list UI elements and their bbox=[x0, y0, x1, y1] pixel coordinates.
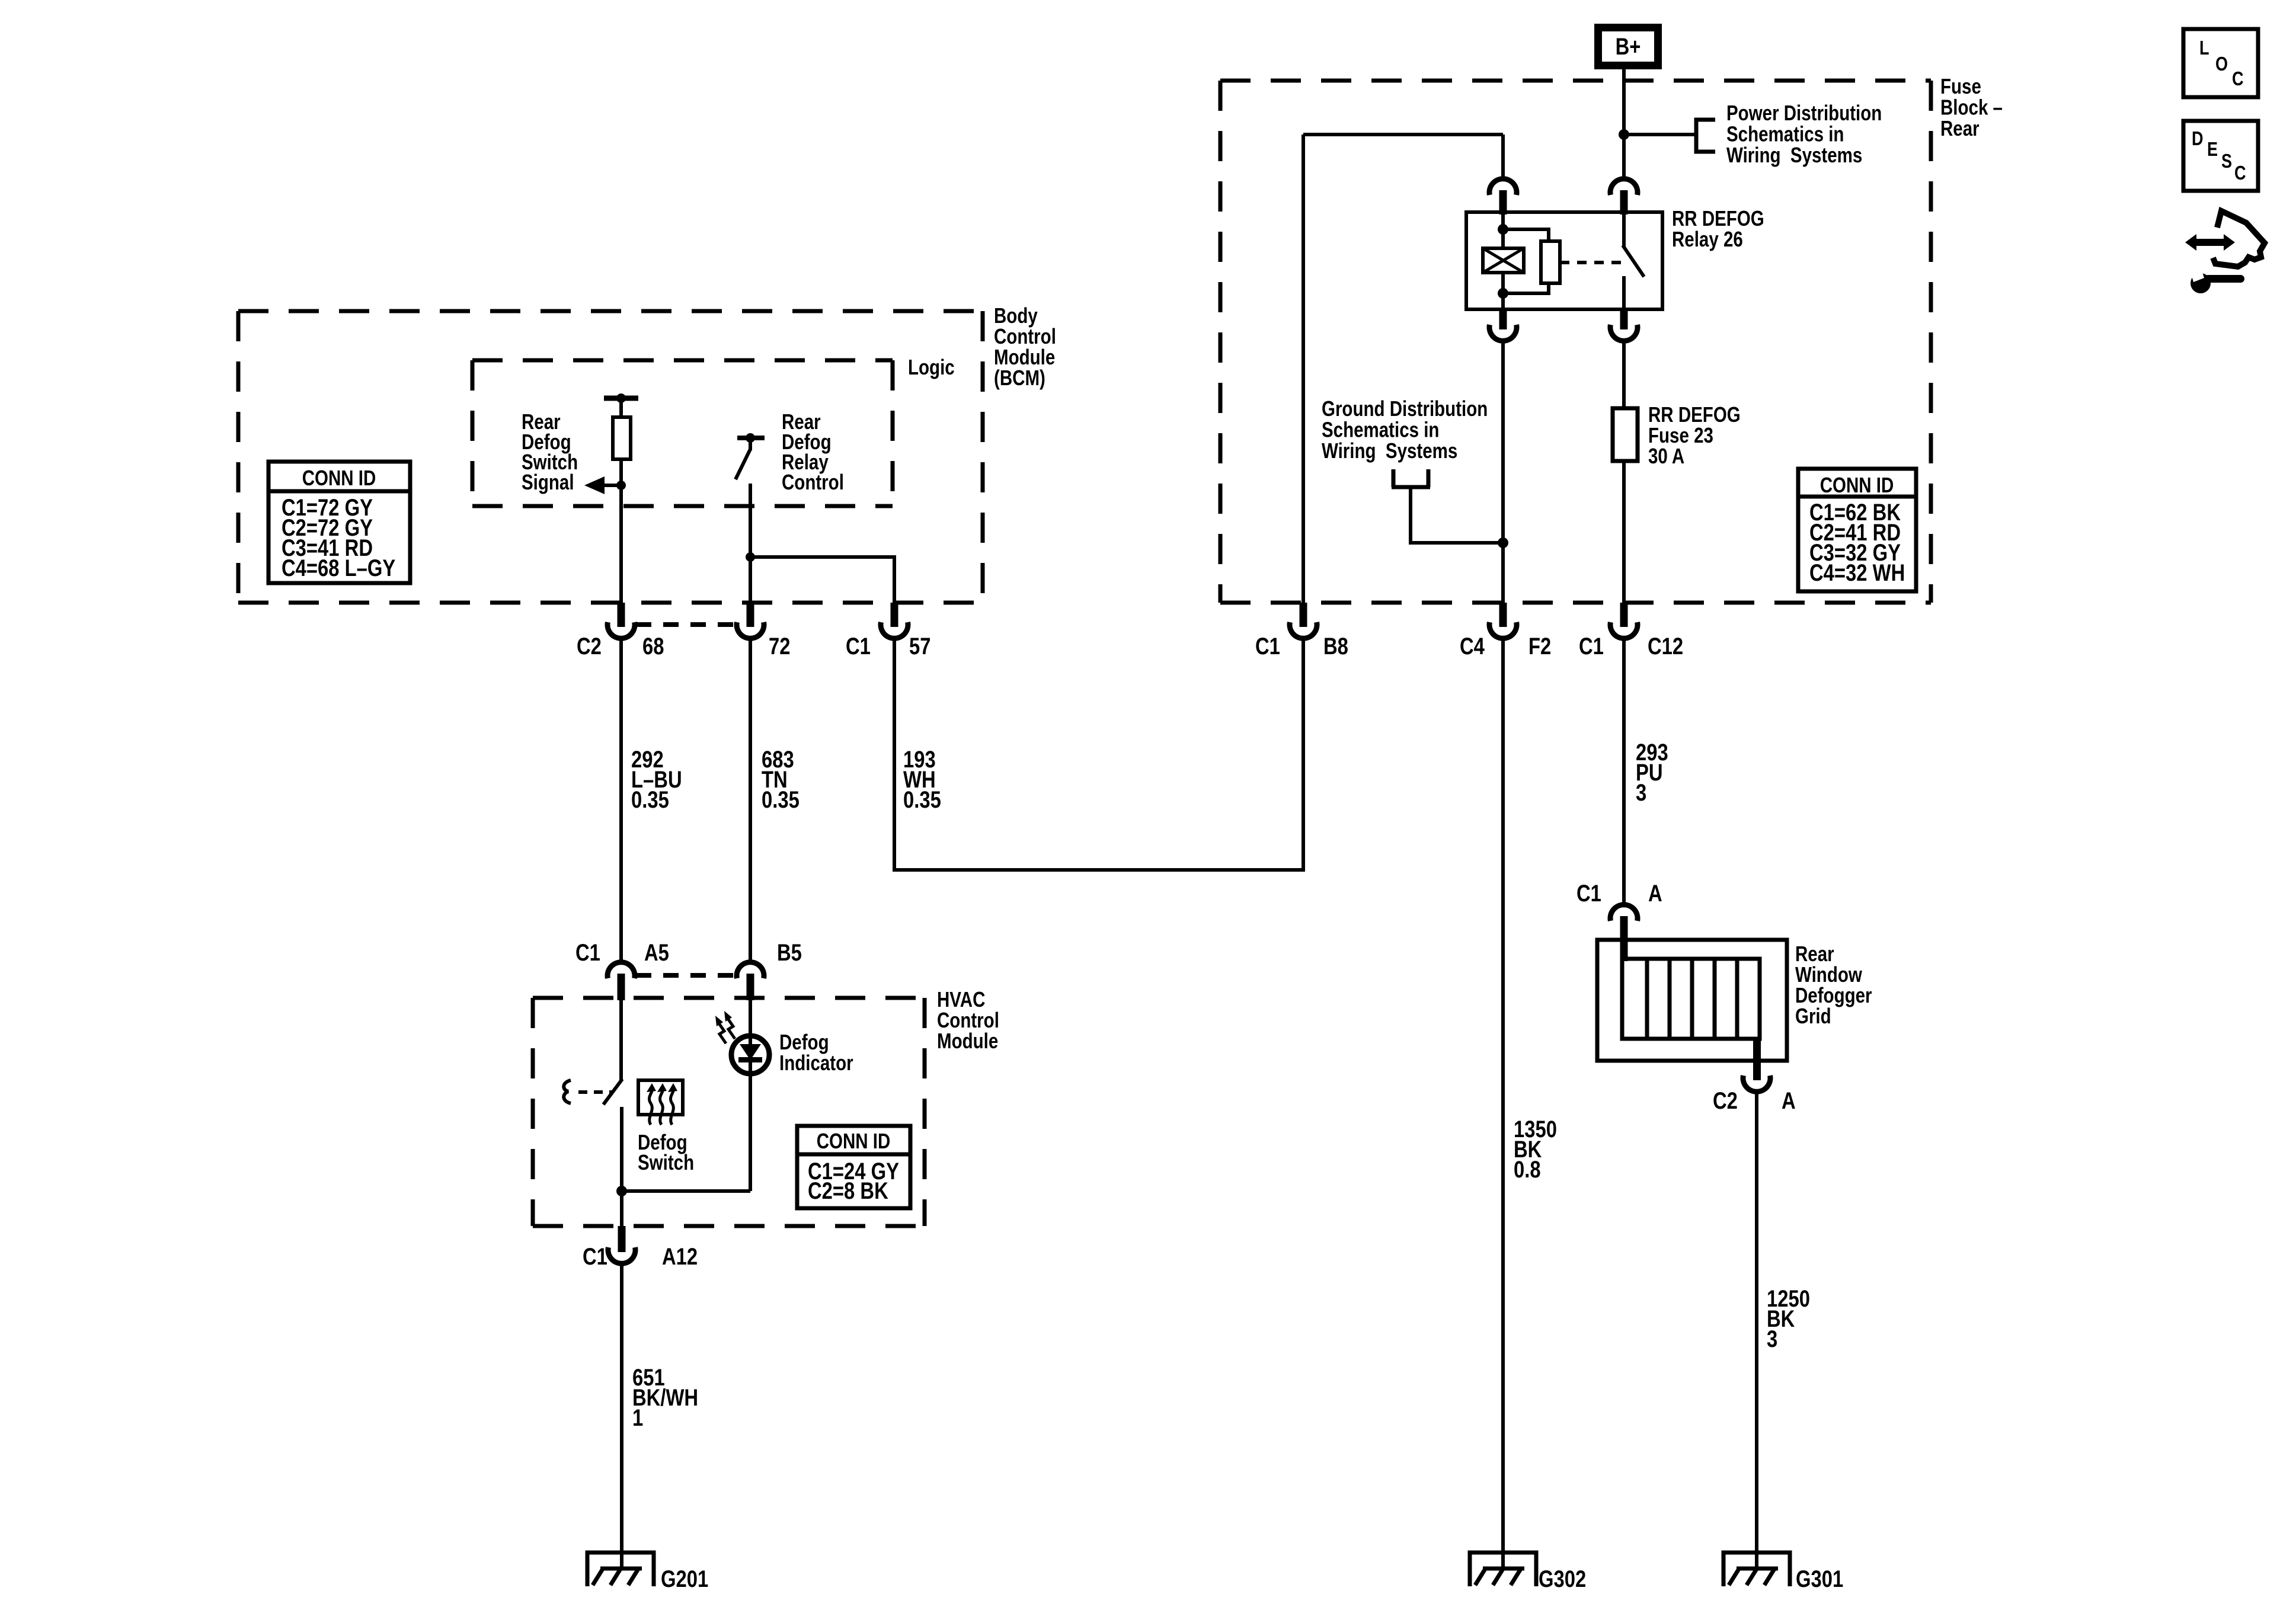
svg-text:G301: G301 bbox=[1796, 1566, 1843, 1592]
signal arrow line bbox=[602, 484, 621, 487]
svg-text:C1: C1 bbox=[846, 633, 871, 660]
wire rail to resistor bbox=[619, 398, 623, 417]
labels C2 68 72 C1 57 bbox=[577, 633, 602, 660]
service category icon (double arrow) bbox=[2185, 234, 2235, 251]
svg-text:30 A: 30 A bbox=[1648, 444, 1684, 468]
fuse block dashed box (Fuse Block - Rear) bbox=[1220, 81, 1931, 603]
svg-text:3: 3 bbox=[1636, 779, 1646, 806]
wire left vertical (B8 feed) inside fuse block bbox=[1302, 135, 1305, 603]
svg-text:B8: B8 bbox=[1323, 633, 1348, 660]
in-line connector above relay coil bbox=[1489, 179, 1517, 195]
relay coil junction dot top bbox=[1498, 224, 1508, 235]
svg-text:C1: C1 bbox=[1255, 633, 1280, 660]
svg-text:Fuse: Fuse bbox=[1940, 74, 1981, 98]
svg-text:A5: A5 bbox=[644, 939, 669, 966]
svg-text:C4=32 WH: C4=32 WH bbox=[1809, 559, 1905, 586]
svg-text:C2: C2 bbox=[1713, 1087, 1738, 1114]
connector pin 72 (BCM bottom) bbox=[747, 603, 754, 627]
CONN ID table (fuse block) bbox=[1798, 469, 1916, 591]
label C4 / F2 bbox=[1460, 633, 1485, 660]
switch pivot dot bbox=[746, 433, 755, 443]
relay coil junction dot bottom bbox=[1498, 288, 1508, 299]
fuse RR DEFOG Fuse 23 bbox=[1613, 408, 1638, 461]
HVAC control module dashed box bbox=[533, 998, 925, 1226]
label Rear Defog Switch Signal bbox=[522, 409, 578, 494]
svg-text:Logic: Logic bbox=[908, 355, 955, 379]
grid output stub bbox=[1753, 1039, 1761, 1080]
CONN ID table (BCM) bbox=[268, 462, 410, 583]
svg-text:Signal: Signal bbox=[522, 470, 574, 494]
svg-text:Schematics in: Schematics in bbox=[1322, 418, 1439, 441]
switch stub bbox=[749, 438, 752, 450]
B+ power feed symbol bbox=[1598, 28, 1658, 66]
switch blade (rear defog relay control) bbox=[736, 449, 750, 479]
relay coil top wire bbox=[1501, 212, 1505, 248]
wire 683 (72 to B5) bbox=[749, 638, 752, 962]
signal arrowhead bbox=[584, 476, 605, 494]
relay internal resistor bbox=[1541, 241, 1560, 283]
wire 651 to G201 bbox=[620, 1263, 623, 1569]
DESC reference icon bbox=[2183, 121, 2258, 191]
wire 1350 (F2 to G302) bbox=[1501, 638, 1505, 1569]
svg-text:C12: C12 bbox=[1648, 633, 1683, 660]
svg-text:A12: A12 bbox=[662, 1243, 698, 1270]
wire 292 (68 to A5) bbox=[619, 638, 623, 962]
defog indicator LED circle bbox=[731, 1036, 769, 1074]
relay control switch top rail bbox=[737, 436, 765, 440]
service category icon (wrench) bbox=[2189, 264, 2244, 293]
svg-text:S: S bbox=[2221, 151, 2232, 172]
labels C1 A5 B5 bbox=[575, 939, 600, 966]
label Rear Window Defogger Grid bbox=[1795, 942, 1872, 1028]
wire B5 into indicator bbox=[749, 1000, 752, 1191]
connector C1 pin A5 (HVAC top) bbox=[607, 962, 635, 978]
power distribution reference bracket bbox=[1696, 120, 1715, 152]
defog switch actuator spring bbox=[564, 1080, 571, 1103]
wire 293 (C12 to grid) bbox=[1622, 638, 1626, 905]
svg-text:Wiring Systems: Wiring Systems bbox=[1726, 143, 1862, 167]
svg-text:G302: G302 bbox=[1539, 1566, 1586, 1592]
connector C1 pin A (grid top) bbox=[1610, 905, 1638, 921]
svg-text:(BCM): (BCM) bbox=[994, 366, 1045, 389]
svg-text:Block –: Block – bbox=[1940, 95, 2003, 119]
resistor top rail (switch signal pull-up) bbox=[604, 396, 638, 401]
svg-text:A: A bbox=[1782, 1087, 1796, 1114]
ground distribution stem wire bbox=[1411, 488, 1503, 543]
svg-text:Ground Distribution: Ground Distribution bbox=[1322, 396, 1488, 420]
relay RR DEFOG Relay 26 box bbox=[1466, 212, 1662, 309]
heated glass icon box bbox=[638, 1080, 683, 1115]
svg-text:C1: C1 bbox=[575, 939, 600, 966]
wire B+ down to relay connector bbox=[1622, 65, 1626, 179]
label Logic bbox=[908, 355, 955, 379]
ground G301 bbox=[1723, 1553, 1790, 1586]
in-line connector above relay switch bbox=[1610, 179, 1638, 195]
relay switch bottom contact bbox=[1622, 276, 1626, 309]
wire A5 into defog switch bbox=[619, 1000, 623, 1080]
label G302 bbox=[1539, 1566, 1586, 1592]
svg-text:L: L bbox=[2199, 38, 2209, 59]
LOC reference icon bbox=[2183, 29, 2258, 97]
wire fuse to fuse block edge bbox=[1622, 461, 1626, 603]
label Defog Switch bbox=[638, 1130, 694, 1174]
junction dot defog switch output bbox=[616, 1186, 627, 1196]
junction dot relay control tap bbox=[746, 552, 755, 562]
relay internal resistor branch wires bbox=[1503, 229, 1549, 293]
connector C1 pin A12 (HVAC bottom) bbox=[618, 1226, 626, 1252]
svg-text:C1: C1 bbox=[583, 1243, 607, 1270]
svg-text:CONN ID: CONN ID bbox=[302, 466, 376, 489]
svg-text:C2: C2 bbox=[577, 633, 602, 660]
defog switch actuator dashes bbox=[578, 1090, 612, 1094]
wire resistor down through logic edge bbox=[619, 459, 623, 603]
defogger grid element box bbox=[1622, 959, 1760, 1039]
label Ground Distribution Schematics in Wiring Systems bbox=[1322, 396, 1488, 462]
label 683 TN 0.35 bbox=[762, 746, 800, 813]
relay switch blade bbox=[1623, 245, 1644, 277]
heated glass icon wavy arrows bbox=[649, 1087, 673, 1125]
label 651 BK/WH 1 bbox=[632, 1364, 698, 1431]
wire switch-side to fuse bbox=[1622, 341, 1626, 408]
svg-text:F2: F2 bbox=[1528, 633, 1551, 660]
dashed connector link 68-72 bbox=[636, 622, 736, 627]
service category icon (vehicle outline) bbox=[2213, 211, 2265, 267]
svg-text:Relay 26: Relay 26 bbox=[1672, 227, 1743, 251]
svg-text:0.35: 0.35 bbox=[762, 786, 800, 813]
wire branch to power distribution reference bbox=[1624, 133, 1696, 136]
in-line connector below relay coil bbox=[1499, 309, 1507, 329]
wire 1250 (grid to G301) bbox=[1755, 1092, 1758, 1569]
wire indicator branch horizontal bbox=[622, 1189, 750, 1193]
wire coil-side down to connector bbox=[1501, 135, 1505, 179]
ground distribution reference bracket bbox=[1392, 469, 1430, 487]
svg-text:Power Distribution: Power Distribution bbox=[1726, 101, 1882, 124]
relay actuator dashed link bbox=[1560, 261, 1623, 264]
connector C1 pin 57 (BCM bottom) bbox=[891, 603, 898, 627]
svg-text:C1: C1 bbox=[1579, 633, 1604, 660]
svg-text:1: 1 bbox=[632, 1404, 643, 1431]
svg-text:72: 72 bbox=[769, 633, 790, 660]
ground G201 bbox=[587, 1553, 654, 1586]
junction dot on rail bbox=[616, 393, 626, 403]
svg-text:D: D bbox=[2192, 129, 2204, 150]
svg-text:Wiring Systems: Wiring Systems bbox=[1322, 438, 1457, 462]
svg-text:CONN ID: CONN ID bbox=[817, 1129, 891, 1153]
defog switch blade bbox=[603, 1079, 622, 1105]
indicator light rays bbox=[719, 1019, 735, 1044]
label G201 bbox=[661, 1566, 708, 1592]
svg-text:B5: B5 bbox=[777, 939, 802, 966]
logic dashed box bbox=[472, 360, 893, 506]
label RR DEFOG Relay 26 bbox=[1672, 206, 1764, 251]
connector C4 pin F2 (fuse block bottom) bbox=[1499, 603, 1507, 627]
label 1250 BK 3 bbox=[1767, 1285, 1810, 1352]
wire below switch to BCM edge bbox=[749, 484, 752, 603]
junction dot signal tap bbox=[616, 481, 626, 490]
svg-text:C: C bbox=[2234, 163, 2246, 184]
wire coil-side to fuse block edge bbox=[1501, 341, 1505, 603]
defog indicator LED triangle bbox=[740, 1044, 761, 1060]
svg-text:E: E bbox=[2207, 139, 2218, 161]
label Fuse Block - Rear bbox=[1940, 74, 2003, 140]
defog indicator LED cathode bar bbox=[738, 1057, 762, 1062]
label RR DEFOG Fuse 23 30 A bbox=[1648, 402, 1741, 468]
junction dot B+ branch bbox=[1619, 129, 1629, 140]
BCM dashed box (Body Control Module) bbox=[238, 311, 983, 603]
connector C1 pin C12 (fuse block bottom) bbox=[1620, 603, 1628, 627]
svg-text:Control: Control bbox=[782, 470, 844, 494]
svg-text:Schematics in: Schematics in bbox=[1726, 122, 1844, 146]
svg-text:C4: C4 bbox=[1460, 633, 1485, 660]
svg-text:Grid: Grid bbox=[1795, 1004, 1831, 1028]
svg-text:C: C bbox=[2232, 69, 2244, 90]
defog switch lower contact wire bbox=[620, 1107, 623, 1226]
in-line connector below relay switch bbox=[1620, 309, 1628, 329]
label 293 PU 3 bbox=[1636, 739, 1668, 806]
defogger grid bars bbox=[1647, 959, 1737, 1039]
svg-text:3: 3 bbox=[1767, 1326, 1777, 1352]
label Body Control Module (BCM) bbox=[994, 303, 1056, 389]
connector pin B5 (HVAC top) bbox=[737, 962, 764, 978]
labels C1 A12 bbox=[583, 1243, 607, 1270]
resistor R (rear defog switch signal) bbox=[613, 417, 631, 459]
svg-text:Switch: Switch bbox=[638, 1150, 694, 1174]
wire top horizontal feed to relay coil bbox=[1303, 133, 1503, 136]
relay switch top contact bbox=[1622, 212, 1626, 247]
svg-text:O: O bbox=[2215, 54, 2228, 75]
relay coil bottom wire bbox=[1501, 273, 1505, 309]
rear window defogger grid outer box bbox=[1597, 940, 1787, 1061]
ground G302 bbox=[1470, 1553, 1536, 1586]
svg-text:57: 57 bbox=[909, 633, 930, 660]
connector C2 pin A (grid bottom) bbox=[1743, 1076, 1770, 1092]
svg-text:0.35: 0.35 bbox=[631, 786, 669, 813]
label C1 / B8 bbox=[1255, 633, 1280, 660]
dashed connector link A5-B5 bbox=[636, 973, 736, 978]
wire 193 (57 to B8) bbox=[894, 638, 1303, 870]
svg-text:0.35: 0.35 bbox=[903, 786, 941, 813]
svg-text:A: A bbox=[1648, 880, 1662, 907]
junction dot ground-distribution tap bbox=[1498, 537, 1508, 548]
label 193 WH 0.35 bbox=[903, 746, 941, 813]
wire junction to 57 pin bbox=[750, 557, 894, 603]
label C1 / C12 bbox=[1579, 633, 1604, 660]
labels C2 A (grid bottom) bbox=[1713, 1087, 1738, 1114]
svg-text:68: 68 bbox=[642, 633, 664, 660]
svg-text:C1: C1 bbox=[1576, 880, 1601, 907]
svg-text:C2=8 BK: C2=8 BK bbox=[808, 1177, 888, 1204]
svg-text:Module: Module bbox=[937, 1029, 998, 1052]
svg-text:Rear: Rear bbox=[1940, 116, 1980, 140]
svg-text:C4=68 L–GY: C4=68 L–GY bbox=[282, 555, 395, 581]
svg-text:G201: G201 bbox=[661, 1566, 708, 1592]
label HVAC Control Module bbox=[937, 987, 999, 1052]
connector C1 pin B8 (fuse block bottom) bbox=[1300, 603, 1307, 627]
CONN ID table (HVAC) bbox=[797, 1126, 910, 1208]
label G301 bbox=[1796, 1566, 1843, 1592]
svg-text:0.8: 0.8 bbox=[1514, 1156, 1541, 1183]
label Power Distribution Schematics in Wiring Systems bbox=[1726, 101, 1882, 167]
label Rear Defog Relay Control bbox=[782, 409, 844, 494]
label 1350 BK 0.8 bbox=[1514, 1116, 1557, 1183]
label Defog Indicator bbox=[779, 1030, 853, 1074]
label 292 L-BU 0.35 bbox=[631, 746, 682, 813]
svg-text:CONN ID: CONN ID bbox=[1820, 473, 1894, 497]
connector C2 pin 68 (BCM bottom) bbox=[618, 603, 625, 627]
relay coil (box with X) bbox=[1483, 248, 1524, 273]
svg-text:B+: B+ bbox=[1616, 33, 1641, 60]
svg-text:Indicator: Indicator bbox=[779, 1051, 853, 1074]
labels C1 A (grid top) bbox=[1576, 880, 1601, 907]
